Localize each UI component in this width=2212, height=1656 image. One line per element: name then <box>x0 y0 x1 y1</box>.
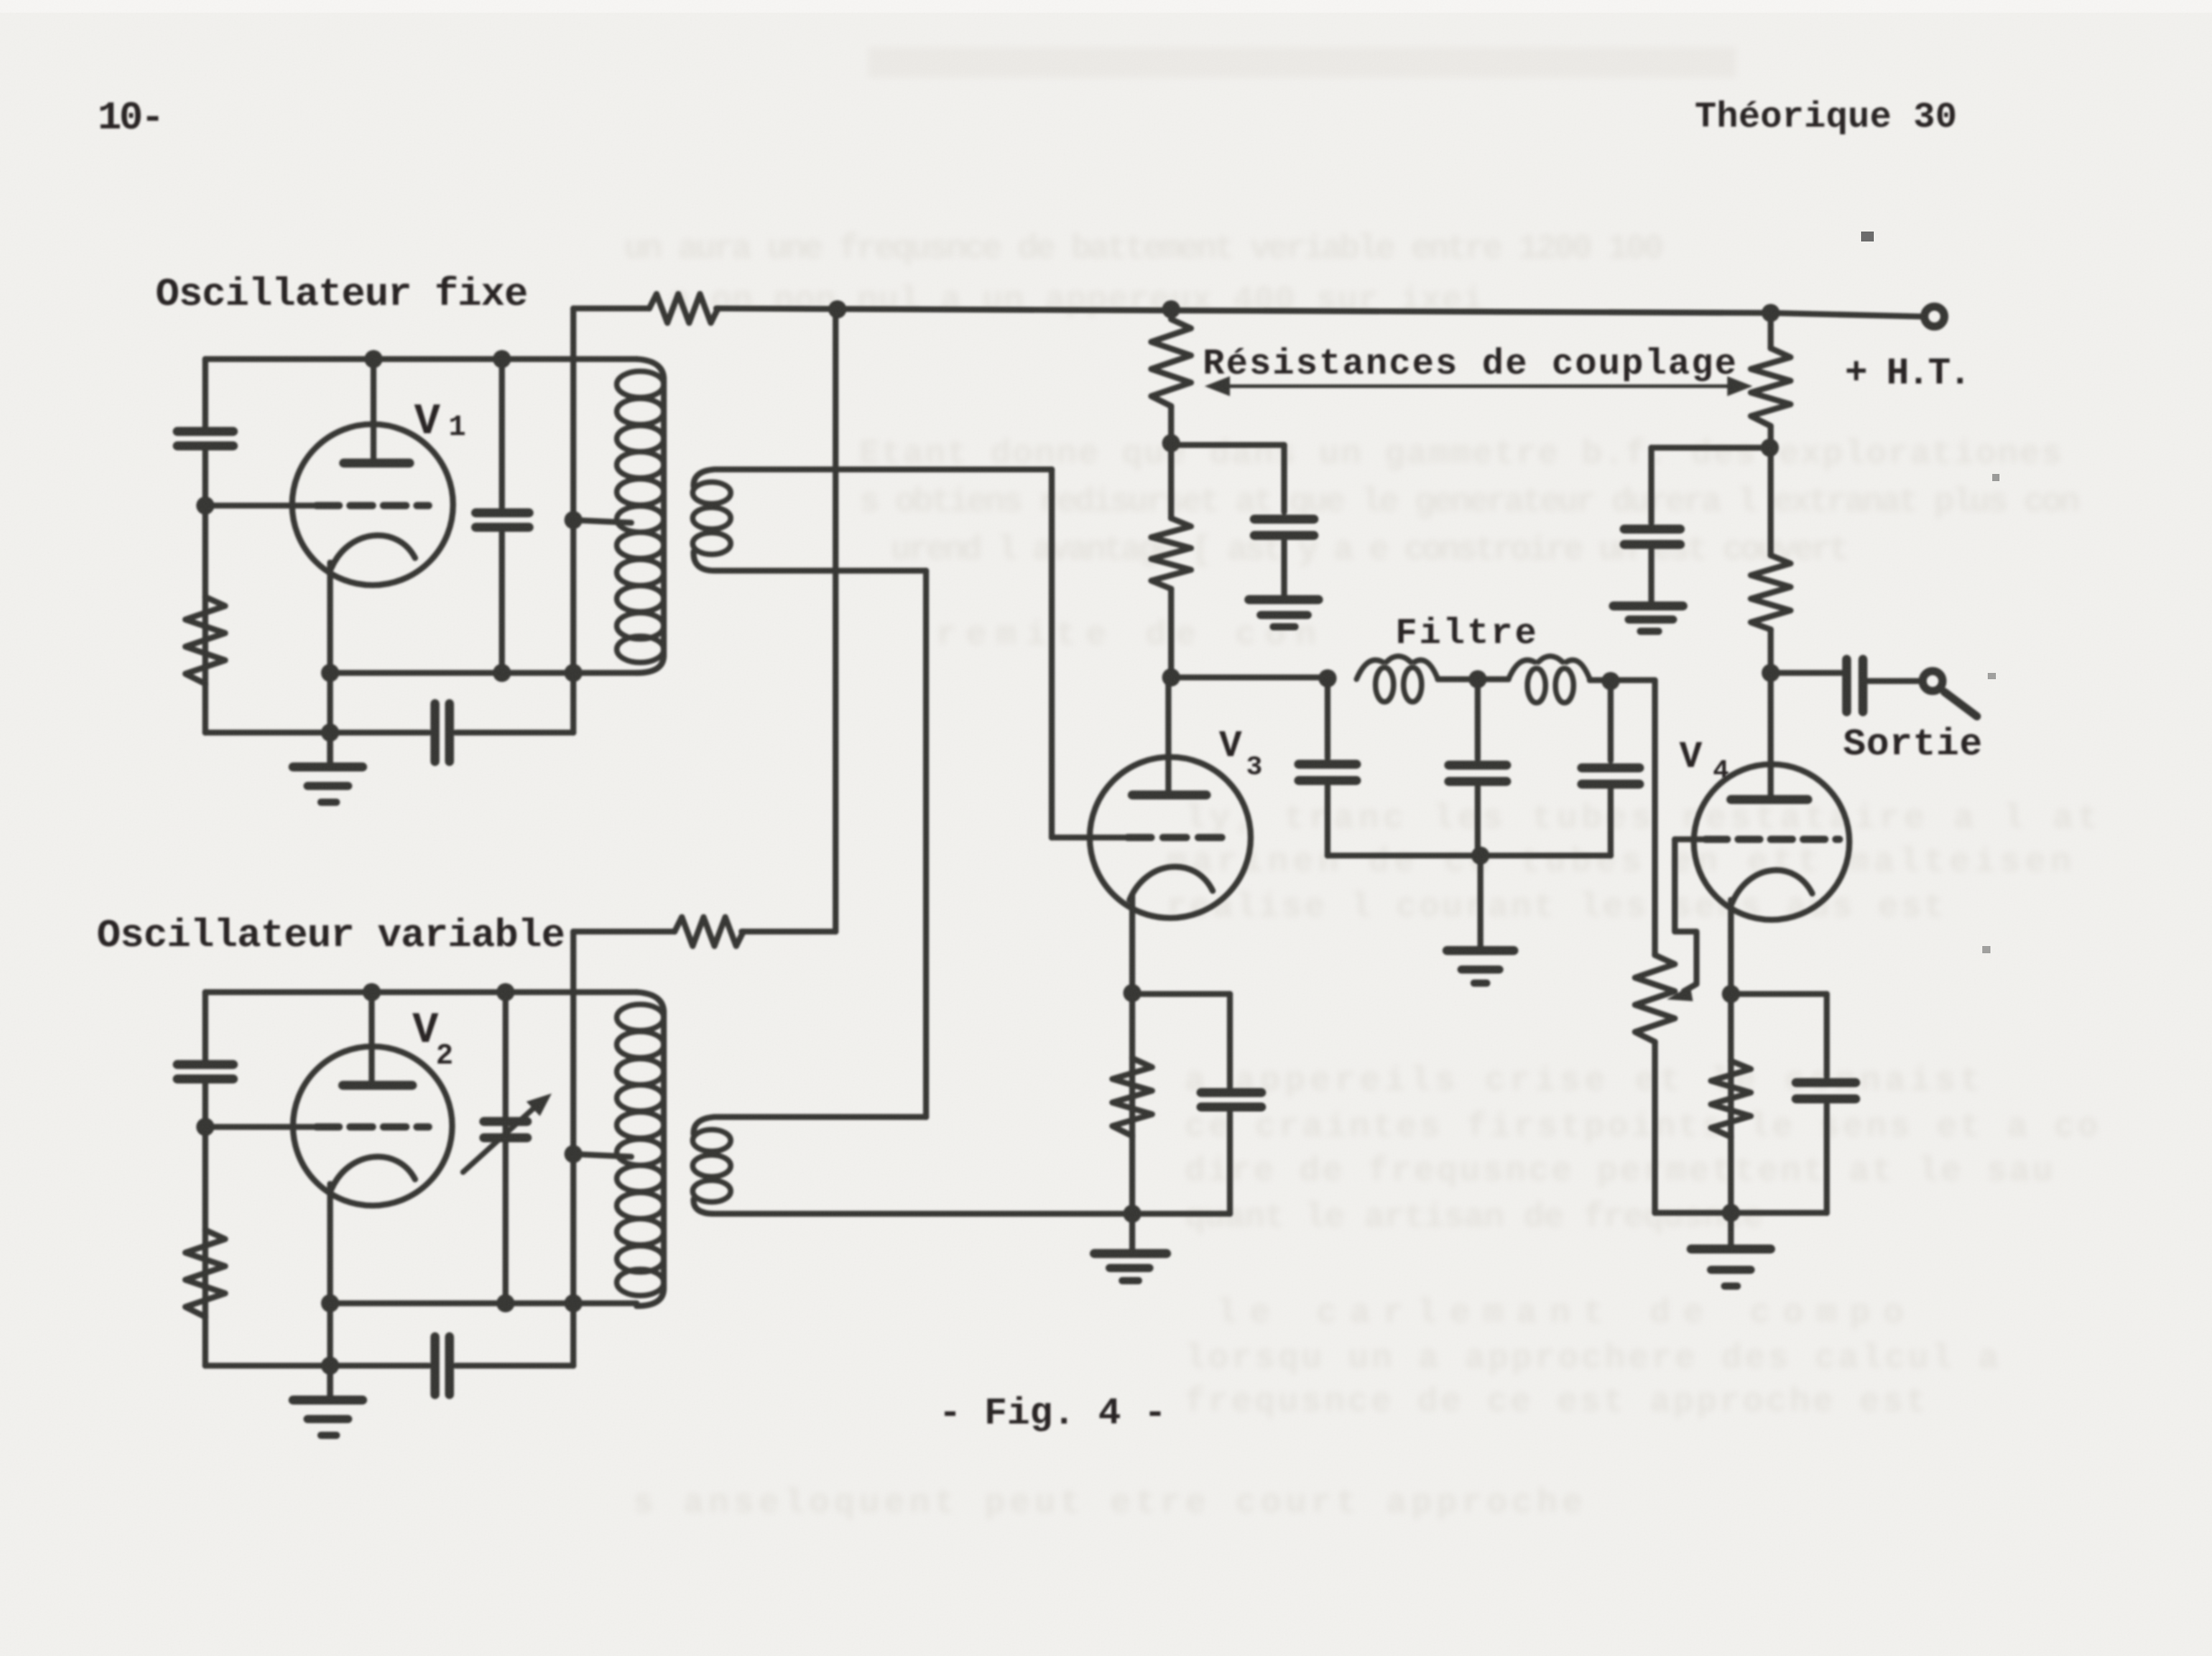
ground: V4 cathode <box>1691 1244 1771 1254</box>
wire: riser from V2 coupling resistor to rail <box>833 309 839 932</box>
node: bus to feedback column 2 <box>564 1294 582 1312</box>
wire: V2 cathode stem <box>327 1184 334 1397</box>
node: V2 cathode to bus <box>321 1294 339 1312</box>
ground: V3 bypass <box>1249 595 1319 604</box>
tube V2 cathode <box>331 1157 415 1190</box>
wire: output run <box>1771 673 1921 681</box>
annotation: resistances de couplage double arrow <box>1214 384 1744 388</box>
wire: mid cap leads <box>499 359 506 673</box>
tube V3 envelope <box>1090 757 1251 918</box>
node: bus to variable cap <box>496 1294 515 1312</box>
capacitor: V2 grid series cap <box>435 1337 449 1395</box>
tube V3 cathode <box>1130 866 1213 900</box>
capacitor: V1 tank cap (middle) <box>476 513 529 527</box>
annotation: variable cap arrow <box>463 1103 539 1172</box>
tube V4 envelope <box>1694 764 1849 920</box>
resistor: V3 coupling lower <box>1151 518 1191 589</box>
capacitor: V2 variable tuning cap <box>484 1121 527 1138</box>
tube V2 envelope <box>293 1046 452 1206</box>
wire: V4 branch top <box>1768 313 1774 555</box>
wire: filter out <box>1590 677 1655 684</box>
tube V3 plate <box>1132 790 1206 800</box>
inductor: T2 secondary winding <box>694 1117 1130 1214</box>
inductor: T1 secondary winding <box>694 469 1052 571</box>
wire: V4 plate node <box>1768 629 1774 673</box>
wire: V2 grid return bottom <box>205 1363 573 1369</box>
wire: V3 plate node <box>1168 589 1175 677</box>
wire: V3 ground bus right <box>1132 1211 1230 1217</box>
wire: V2 box top rail <box>205 989 637 996</box>
node: V2 grid <box>196 1118 214 1136</box>
wire: V1 cathode stem <box>327 563 334 764</box>
node: V2 plate top <box>363 983 381 1001</box>
resistor: V3 cathode bias <box>1112 1058 1152 1136</box>
node: filter input <box>1319 669 1337 687</box>
tube V4 plate <box>1731 795 1808 804</box>
resistor: V1 grid leak <box>185 597 225 684</box>
node: V1 grid <box>196 497 214 515</box>
resistor: output potentiometer <box>1635 955 1675 1042</box>
speck <box>1861 232 1874 241</box>
capacitor: filter C3 <box>1608 681 1614 856</box>
capacitor: V2 grid tank cap (left) <box>177 1065 233 1079</box>
node: V4 ground node <box>1722 1204 1740 1222</box>
ground: V3 cathode <box>1094 1249 1167 1258</box>
tube V2 plate <box>343 1081 412 1090</box>
node: V1 plate top <box>364 350 383 368</box>
node: V3 screen node <box>1162 434 1180 452</box>
resistor: V4 coupling upper <box>1751 348 1791 426</box>
wire: V3 plate to filter <box>1171 675 1328 681</box>
wire: T2 tap lead <box>573 1154 631 1157</box>
node: V3 plate node <box>1162 668 1180 686</box>
node: V2 ground wire <box>321 1357 339 1375</box>
wire: V3 plate stem <box>1166 677 1172 793</box>
speck <box>1982 946 1990 953</box>
capacitor: output coupling <box>1847 659 1863 712</box>
node: V1 top cap branch <box>493 350 511 368</box>
terminal: +H.T. <box>1924 307 1944 326</box>
wire: V1 grid return bottom <box>205 730 573 736</box>
node: V1 cathode to bus <box>321 664 339 682</box>
inductor: filter L1 <box>1357 657 1438 680</box>
node: rail junction to V2 riser <box>828 300 846 318</box>
wire: V4 plate stem <box>1768 673 1774 798</box>
speck <box>1988 673 1996 679</box>
resistor: V1 coupling (on rail) <box>649 294 718 323</box>
node: V1 ground wire <box>321 724 339 742</box>
wire: V4 cathode stem <box>1728 900 1735 1246</box>
wire: +H.T. rail <box>573 308 1923 317</box>
wire: branch to bypass cap <box>1651 445 1770 451</box>
tube V4 cathode <box>1732 870 1812 904</box>
tube V1 grid (dashed) <box>317 502 429 509</box>
ground: V1 cathode <box>327 733 334 764</box>
wire: V1 cathode bus <box>330 670 637 677</box>
tube V1 cathode <box>331 535 415 569</box>
wire: filter mid <box>1438 677 1508 683</box>
wire: T1 secondary to V3 grid riser <box>1049 469 1055 837</box>
wire: V2 grid lead <box>205 1124 317 1131</box>
resistor: V2 grid leak <box>185 1230 225 1317</box>
wire: V3 cathode to bypass cap <box>1132 991 1230 998</box>
capacitor: V3 bypass to ground <box>1281 445 1288 596</box>
wire: V1 grid lead <box>205 503 317 509</box>
resistor: V2 coupling <box>675 917 743 946</box>
node: V4 plate node <box>1762 664 1780 682</box>
node: bus to feedback column <box>564 664 582 682</box>
ground: V2 cathode <box>327 1366 334 1397</box>
node: filter mid <box>1469 670 1487 688</box>
wire: V1 left column <box>203 359 209 733</box>
tube V1 envelope <box>292 424 453 585</box>
node: V3 ground node <box>1123 1205 1141 1223</box>
inductor: T1 primary winding <box>637 359 664 673</box>
resistor: V4 plate load lower <box>1751 555 1791 629</box>
wire: V4 cathode to bypass cap <box>1731 991 1827 998</box>
wire: V3 branch mid <box>1168 406 1175 518</box>
node: T1 primary tap <box>564 511 582 529</box>
node: T2 primary tap <box>564 1145 582 1163</box>
ground: filter <box>1478 856 1484 947</box>
wire: secondary link T1-T2 <box>923 571 930 1117</box>
node: V4 cathode <box>1722 985 1740 1003</box>
resistor: V4 cathode bias <box>1711 1061 1751 1137</box>
wire: V4 grid jog to potentiometer <box>1675 839 1697 991</box>
wire: V2 cathode bus <box>330 1301 637 1307</box>
wire: V2 plate stem <box>369 992 375 1085</box>
resistor: V3 coupling upper <box>1151 319 1191 406</box>
capacitor: V1 grid tank cap (left) <box>177 431 233 446</box>
wire: T1 tap lead <box>573 520 631 523</box>
capacitor: V4 cathode bypass <box>1824 994 1830 1213</box>
capacitor: V4 bypass to ground <box>1649 448 1655 602</box>
node: rail junction to V3 branch <box>1162 300 1180 318</box>
node: filter output <box>1602 672 1620 690</box>
wire: V2 left column <box>203 992 209 1366</box>
node: V2 top cap branch <box>496 983 515 1001</box>
wire: filter ground bus <box>1328 853 1611 859</box>
wire: V2 coupling resistor run <box>573 929 836 935</box>
wire: V1 feedback column <box>571 308 577 733</box>
capacitor: V1 grid series cap <box>435 704 449 762</box>
terminal: Sortie <box>1923 671 1943 691</box>
inductor: T2 primary winding <box>637 992 664 1306</box>
tube V1 plate <box>344 459 410 468</box>
node: V3 cathode <box>1123 984 1141 1002</box>
tube V4 grid (dashed) <box>1675 837 1706 843</box>
node: filter ground <box>1471 847 1489 865</box>
wire: branch to bypass cap <box>1171 442 1284 449</box>
capacitor: filter C1 <box>1325 678 1331 856</box>
wire: V1 box top rail <box>205 356 637 363</box>
wire: V3 cathode stem <box>1130 895 1136 1252</box>
node: V4 screen node <box>1761 439 1779 457</box>
speck <box>1992 474 1999 481</box>
node: rail junction to V4 branch <box>1762 304 1780 322</box>
node: bus to mid cap <box>493 664 511 682</box>
capacitor: filter C2 <box>1475 679 1481 856</box>
wire: V4 ground bus <box>1655 1210 1827 1216</box>
wire: filter output riser <box>1652 681 1659 1213</box>
ground: V4 bypass <box>1613 601 1683 610</box>
tube V2 grid (dashed) <box>317 1123 429 1131</box>
tube V3 grid (dashed) <box>1052 835 1128 841</box>
wire: V1 plate stem <box>371 359 377 463</box>
capacitor: V3 cathode bypass <box>1227 994 1234 1214</box>
inductor: filter L2 <box>1508 657 1590 680</box>
wire: V2 feedback column <box>571 932 577 1366</box>
